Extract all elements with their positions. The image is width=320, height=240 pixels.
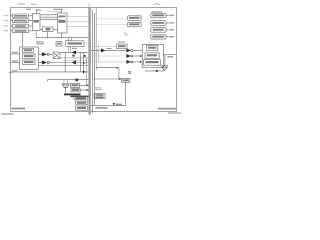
- bubble T2: [47, 61, 49, 63]
- text smudge E2b: [147, 54, 158, 56]
- wire U2 to bus c: [67, 26, 88, 28]
- label above T3: [72, 48, 77, 49]
- pin stub 2: [11, 20, 13, 22]
- arrowhead y79: [119, 78, 121, 80]
- bubble T5a: [131, 49, 133, 51]
- pin stub G1: [166, 15, 169, 17]
- interface box W1: [66, 41, 85, 47]
- wire stack to U1 b: [29, 20, 33, 22]
- text smudge reg2: [14, 20, 27, 22]
- inner box E2c: [144, 60, 161, 66]
- wire U1 drop: [35, 31, 37, 38]
- wire W1r to bus: [91, 45, 117, 47]
- caption text under wire: [96, 107, 108, 109]
- wire label y105: [116, 104, 123, 106]
- text smudge U1: [34, 20, 40, 23]
- text smudge Q1: [76, 97, 87, 99]
- wire stack to U1 a: [29, 15, 33, 17]
- small box R2: [122, 79, 131, 83]
- register box 4: [13, 29, 29, 33]
- output group rect E2: [142, 44, 163, 67]
- pin stub top U2: [61, 9, 63, 13]
- wire U2 to bus a: [67, 16, 88, 18]
- junction dot y79: [76, 79, 79, 82]
- osc box V1: [128, 16, 142, 20]
- border frame: [11, 8, 177, 112]
- wire T5a to E2: [133, 49, 143, 51]
- thick bar: [64, 94, 81, 96]
- label box P2: [71, 88, 80, 92]
- wire y105 right: [91, 105, 126, 107]
- bus spine (thick gray): [88, 8, 90, 115]
- processor block U2: [58, 13, 68, 33]
- text smudge R1 line1: [96, 94, 104, 96]
- wire bus to T5b: [91, 55, 127, 57]
- mixer X stroke a: [54, 53, 59, 58]
- text smudge G4: [152, 36, 164, 38]
- wire horizontal bus y37: [36, 37, 88, 39]
- mux input stub b: [66, 80, 68, 84]
- text smudge V1: [129, 17, 140, 19]
- small marks above R2: [128, 71, 131, 72]
- bottom box Q2: [76, 101, 88, 105]
- pin label G3: [170, 29, 175, 30]
- mixer M1: [53, 52, 60, 59]
- junction dot x85: [84, 55, 86, 57]
- text smudge E1c: [24, 61, 34, 63]
- gpio box G1: [151, 13, 166, 18]
- text smudge U2 row2: [59, 20, 66, 23]
- pin stub left y72: [9, 71, 13, 73]
- register box 2: [13, 19, 29, 23]
- pin label G1: [170, 15, 175, 16]
- pin label G2: [170, 22, 175, 23]
- pin stub E2 out: [164, 54, 177, 56]
- amp triangle T5c: [127, 60, 131, 64]
- wire drop to interface b: [71, 38, 73, 41]
- caption bottom right: [158, 108, 176, 110]
- wire bus line 1: [92, 10, 94, 113]
- wire vert x86: [85, 58, 87, 86]
- text smudge W1r: [118, 45, 126, 47]
- tiny text below frame bottom-right: [168, 112, 181, 114]
- text smudge W0: [57, 43, 61, 45]
- faint text right of bus row1: [94, 87, 101, 88]
- mixer X stroke b: [54, 53, 59, 58]
- label above W1r: [118, 41, 125, 42]
- faint text right of bus row2: [94, 89, 102, 90]
- wire E2 right vert: [164, 55, 166, 66]
- wire U1-U2 a: [40, 14, 58, 16]
- osc box V2: [128, 22, 142, 27]
- faint label above frame a: [18, 3, 25, 4]
- label under B1 line1: [36, 41, 44, 42]
- junction arrow P2: [87, 89, 89, 91]
- junction arrow P1: [87, 84, 89, 86]
- gpio box G4: [151, 35, 166, 40]
- wire stack to U1 d: [29, 30, 33, 32]
- wire mid y50 right: [91, 49, 127, 51]
- wire E1 to T1: [39, 53, 43, 55]
- frame label out 4: [4, 30, 9, 31]
- text smudge U3: [46, 28, 51, 30]
- buffer triangle T4 right: [101, 48, 106, 52]
- arrowhead down: [83, 71, 85, 74]
- buffer triangle T7 left low: [72, 60, 76, 64]
- register box 3: [13, 24, 29, 28]
- wire y60: [64, 59, 88, 61]
- mux input stub a: [63, 80, 65, 84]
- wire vert x65: [64, 52, 66, 72]
- amp triangle T5a: [127, 48, 131, 52]
- wire vert x80: [80, 52, 82, 72]
- wire U2 to bus b: [67, 21, 88, 23]
- gpio box G3: [151, 28, 166, 33]
- inner box E1c: [23, 60, 36, 64]
- wire vert x118.9: [118, 68, 120, 79]
- faint label above frame b: [31, 4, 37, 5]
- ground symbol: [161, 66, 168, 71]
- mux trapezoid: [62, 84, 69, 88]
- top label G: [152, 11, 163, 12]
- arrowhead on wire: [113, 103, 115, 106]
- right bottom box R1: [94, 93, 105, 98]
- text smudge P2: [72, 89, 79, 91]
- label box P1: [71, 83, 80, 87]
- inner box E1b: [23, 54, 36, 58]
- wire mid y52 left: [60, 51, 88, 53]
- control block U1: [33, 14, 41, 31]
- register box 1: [13, 14, 29, 18]
- pin stub E1 in1: [11, 53, 20, 55]
- pin stub 3: [11, 25, 13, 27]
- pin label y72: [12, 70, 17, 71]
- text smudge G1: [152, 14, 164, 16]
- junction dot E2 bottom: [156, 70, 158, 72]
- bottom box Q1: [74, 96, 88, 100]
- wire U3 drop: [47, 32, 49, 38]
- top label b: [37, 9, 42, 10]
- clock box W0: [56, 41, 62, 46]
- squiggle above frame top-right: [154, 3, 161, 5]
- pin label E1 in2: [12, 60, 18, 61]
- bubble T5c: [131, 61, 133, 63]
- top label c: [53, 9, 63, 10]
- pin stub G2: [166, 22, 169, 24]
- text smudge reg3: [15, 25, 26, 26]
- wire V1 to bus: [96, 18, 127, 20]
- pin stub 4: [11, 30, 13, 32]
- wire T1 to mixer: [49, 53, 53, 55]
- inner box E2a: [147, 45, 158, 50]
- label right of T4: [107, 48, 112, 49]
- pin stub 1: [11, 15, 13, 17]
- wire E2 bottom: [145, 70, 164, 72]
- wire stack to U1 c: [29, 25, 33, 27]
- text smudge U2: [59, 16, 66, 18]
- top label a: [26, 9, 31, 10]
- faint wire above B2: [47, 11, 62, 13]
- thick bar lower: [71, 96, 89, 98]
- wire T2 to bus: [49, 62, 88, 64]
- wire stack to E1 vert: [21, 33, 23, 47]
- amp triangle T1: [42, 52, 47, 56]
- label under B1 line2: [36, 43, 44, 44]
- amp triangle T5b: [127, 54, 131, 58]
- text smudge reg1: [14, 15, 27, 17]
- wire bus to T5c: [91, 61, 127, 63]
- arrowhead down mid: [83, 63, 85, 66]
- amp triangle T2: [42, 61, 47, 65]
- wire E1 to T2: [39, 62, 43, 64]
- wire V2 to bus: [96, 23, 127, 25]
- pin stub E1 in2: [11, 62, 20, 64]
- pin label E2: [168, 56, 174, 57]
- frame label out 3: [4, 25, 9, 26]
- pin label E1 in1: [12, 52, 18, 53]
- inner box E1a: [23, 48, 34, 52]
- arrowhead y67: [116, 67, 118, 69]
- arrow down x83: [83, 52, 85, 71]
- small symbol under V2: [124, 32, 128, 35]
- pin label G4: [170, 36, 175, 37]
- wire bus line 4: [97, 44, 99, 63]
- wire P2 to bus: [80, 89, 88, 91]
- wire U2 drop: [61, 33, 63, 38]
- text smudge E1b: [24, 55, 34, 57]
- wire bus to R2 left: [93, 78, 122, 80]
- arrowhead into E2 b: [140, 55, 142, 57]
- text smudge V2: [129, 23, 140, 25]
- frame label out 2: [4, 20, 9, 21]
- frame label out 1: [4, 15, 9, 16]
- wire bus line 2: [94, 13, 96, 105]
- wire U1 to U3: [40, 28, 43, 30]
- text smudge E1a: [24, 49, 32, 51]
- bubble T5b: [131, 55, 133, 57]
- text smudge reg4: [15, 30, 27, 32]
- wire y79: [47, 79, 88, 81]
- bottom box Q3: [76, 106, 88, 110]
- text smudge G3: [153, 29, 164, 31]
- text smudge P1: [72, 84, 79, 86]
- text smudge Q2: [77, 102, 86, 104]
- gpio box G2: [151, 21, 166, 26]
- wire drop to interface a: [68, 38, 70, 41]
- inner box E2b: [145, 53, 159, 59]
- caption bottom left: [12, 108, 26, 110]
- bus top stub: [88, 4, 90, 8]
- wire vert x125: [125, 82, 127, 105]
- text smudge R1 line2: [96, 96, 104, 98]
- W1 output stub b: [70, 47, 72, 53]
- wire stub down x47: [46, 80, 48, 82]
- wire U1-U2 b: [40, 16, 58, 18]
- small marks above R2 b: [129, 72, 131, 75]
- junction blob below T3: [72, 55, 74, 57]
- arrowhead into E2 c: [140, 61, 142, 63]
- wire mixer to bus y57.8: [60, 57, 88, 59]
- wire bus line 3: [95, 8, 97, 71]
- wire y65: [39, 65, 89, 67]
- wire U1-U2 c: [40, 19, 58, 21]
- wire T5c to E2: [133, 61, 143, 63]
- wire U3 to U2: [53, 28, 58, 30]
- text smudge R2: [123, 79, 130, 81]
- wire P1 to bus: [80, 84, 89, 86]
- analog group rect E1: [20, 47, 39, 70]
- DAC block U3: [43, 27, 54, 32]
- wire long y72: [11, 71, 89, 73]
- wire T5b to E2: [133, 55, 143, 57]
- text smudge E2c: [146, 61, 159, 63]
- tiny text below frame bottom-left: [2, 113, 14, 115]
- text smudge W1: [68, 42, 83, 44]
- bubble T1: [47, 53, 49, 55]
- text smudge Q3: [77, 107, 86, 109]
- pin stub top U1: [35, 9, 37, 14]
- interface box W1r: [117, 44, 128, 49]
- mux stub down: [65, 88, 67, 94]
- W1 output stub a: [68, 47, 70, 53]
- text smudge G2: [152, 22, 164, 24]
- pin stub G4: [166, 36, 169, 38]
- pin stub G3: [166, 29, 169, 31]
- text smudge E2a: [148, 47, 156, 49]
- wire bus to R2 top: [96, 67, 118, 69]
- buffer triangle T3 left: [72, 50, 76, 54]
